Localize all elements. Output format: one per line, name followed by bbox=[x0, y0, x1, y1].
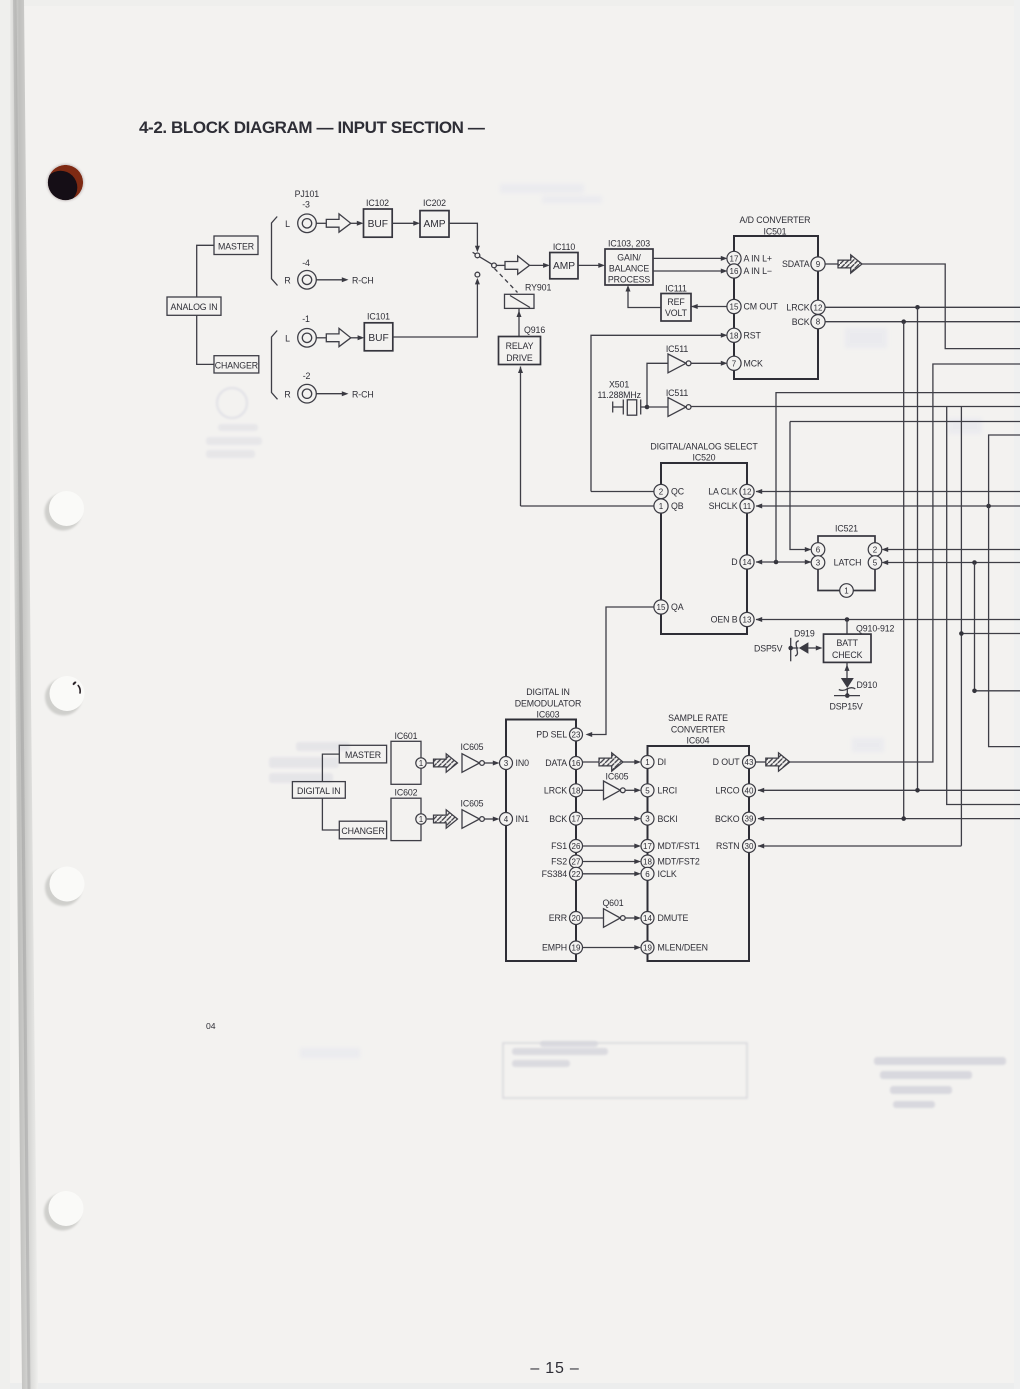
wire BCK to BCKI bbox=[583, 818, 639, 820]
node CHANGER (digital) bbox=[339, 821, 386, 839]
jack R master bbox=[284, 271, 316, 290]
svg-text:RELAY: RELAY bbox=[506, 341, 534, 351]
node MASTER (digital) bbox=[339, 745, 386, 763]
pin 1 IC602 bbox=[416, 814, 426, 824]
svg-text:19: 19 bbox=[643, 944, 652, 953]
wire EMPH to MLEN/DEEN bbox=[583, 947, 639, 949]
pin 27 FS2 bbox=[551, 855, 582, 868]
node BCK junction bbox=[901, 319, 906, 324]
svg-text:39: 39 bbox=[745, 815, 754, 824]
wire analog-in tree bbox=[197, 245, 214, 364]
svg-text:17: 17 bbox=[643, 842, 652, 851]
svg-text:LRCK: LRCK bbox=[786, 303, 809, 313]
node LRCO junction bbox=[915, 788, 920, 793]
hatched arrow IN0 bbox=[434, 754, 458, 772]
svg-text:26: 26 bbox=[572, 842, 581, 851]
svg-text:14: 14 bbox=[643, 914, 652, 923]
hollow arrow after switch bbox=[505, 256, 530, 274]
wire CM OUT to REF VOLT bbox=[691, 306, 728, 308]
wire pin5 branch down bbox=[975, 563, 1020, 691]
svg-text:R: R bbox=[284, 276, 290, 286]
pin 18 MDT/FST2 bbox=[641, 855, 700, 868]
svg-text:IC521: IC521 bbox=[835, 524, 858, 534]
wire arrow to BUF changer bbox=[351, 337, 362, 339]
jack L master bbox=[285, 214, 316, 233]
svg-text:MLEN/DEEN: MLEN/DEEN bbox=[658, 943, 708, 953]
punch hole shadow 2 bbox=[45, 679, 82, 716]
switch S relay contacts bbox=[473, 252, 497, 277]
svg-text:4-2. BLOCK DIAGRAM — INPUT SEC: 4-2. BLOCK DIAGRAM — INPUT SECTION — bbox=[139, 118, 485, 137]
wire digital-in tree bbox=[322, 754, 339, 830]
pin 4 IN1 bbox=[500, 813, 530, 826]
svg-text:-2: -2 bbox=[303, 371, 311, 381]
svg-text:RSTN: RSTN bbox=[716, 841, 740, 851]
svg-text:PJ101: PJ101 bbox=[295, 189, 320, 199]
svg-text:DIGITAL/ANALOG SELECT: DIGITAL/ANALOG SELECT bbox=[650, 441, 758, 451]
wire SHCLK from edge bbox=[756, 505, 1020, 507]
svg-text:EMPH: EMPH bbox=[542, 943, 567, 953]
pin 3 IC521 bbox=[811, 556, 825, 570]
bleedthrough ghost text bottom right bbox=[874, 1057, 1006, 1108]
wire R master to R-CH bbox=[316, 279, 342, 281]
wire Q601 to DMUTE bbox=[625, 917, 638, 919]
svg-text:AMP: AMP bbox=[423, 219, 445, 230]
svg-text:IN0: IN0 bbox=[516, 758, 530, 768]
inverter IC605 in0 bbox=[461, 742, 485, 772]
svg-text:IC605: IC605 bbox=[461, 799, 484, 809]
wire BCK to edge bbox=[825, 321, 1020, 323]
punch hole shadow 3 bbox=[45, 869, 82, 906]
pin 12 LA CLK bbox=[708, 484, 754, 498]
svg-text:IC605: IC605 bbox=[461, 742, 484, 752]
svg-text:FS384: FS384 bbox=[542, 869, 568, 879]
wire IC602 to arrow bbox=[427, 818, 434, 820]
pin 13 OEN B bbox=[711, 612, 754, 626]
wire arrow to DI bbox=[623, 761, 639, 763]
pin 18 RST bbox=[727, 328, 762, 342]
svg-text:LRCO: LRCO bbox=[715, 786, 739, 796]
svg-text:6: 6 bbox=[645, 870, 650, 879]
svg-text:DIGITAL IN: DIGITAL IN bbox=[526, 687, 569, 697]
wire BUF to AMP bbox=[392, 222, 418, 224]
pin 3 IN0 bbox=[500, 757, 530, 770]
wire branch y633 to edge bbox=[961, 633, 1020, 635]
wire branch x961 bbox=[960, 407, 962, 846]
bleedthrough ghost text mid-left bbox=[269, 742, 350, 783]
svg-text:04: 04 bbox=[206, 1021, 216, 1031]
svg-text:D910: D910 bbox=[857, 680, 878, 690]
pin 22 FS384 bbox=[542, 867, 583, 880]
svg-text:11: 11 bbox=[743, 502, 752, 511]
op-amp IC101 BUF bbox=[364, 312, 393, 351]
svg-text:17: 17 bbox=[572, 815, 581, 824]
wire inverter to IN1 bbox=[484, 818, 497, 820]
pin 19 EMPH bbox=[542, 941, 583, 954]
supply DSP15V bbox=[830, 688, 863, 712]
node SHCLK junction bbox=[986, 504, 991, 509]
hollow arrow L changer bbox=[326, 328, 351, 346]
svg-text:MASTER: MASTER bbox=[218, 242, 254, 252]
pin 17 BCK bbox=[549, 812, 582, 825]
wire D OUT route bbox=[756, 761, 766, 763]
svg-text:D OUT: D OUT bbox=[713, 757, 741, 767]
pin 39 BCKO bbox=[715, 812, 756, 825]
wire RST from QC bbox=[591, 335, 725, 491]
svg-text:– 15 –: – 15 – bbox=[530, 1360, 579, 1377]
wire R changer to R-CH bbox=[316, 393, 342, 395]
svg-text:12: 12 bbox=[814, 303, 823, 312]
svg-text:BALANCE: BALANCE bbox=[609, 264, 650, 274]
wire RSTN from bus bbox=[758, 845, 961, 847]
svg-text:IC511: IC511 bbox=[666, 388, 689, 398]
wire D OUT to bus bbox=[790, 364, 1020, 762]
svg-text:1: 1 bbox=[645, 758, 650, 767]
pin 23 PD SEL bbox=[536, 728, 582, 741]
wire y435 corner bbox=[989, 435, 1020, 747]
wire LRCO from edge bbox=[758, 789, 1020, 791]
node crystal junction bbox=[645, 405, 650, 410]
svg-text:1: 1 bbox=[844, 587, 849, 596]
svg-text:AMP: AMP bbox=[553, 261, 575, 272]
svg-text:BUF: BUF bbox=[368, 333, 388, 344]
hatched arrow IN1 bbox=[434, 810, 458, 828]
svg-text:D: D bbox=[731, 557, 737, 567]
pin 9 SDATA bbox=[782, 257, 825, 271]
svg-text:9: 9 bbox=[816, 260, 821, 269]
mech link dashed bbox=[495, 269, 518, 293]
svg-text:15: 15 bbox=[657, 603, 666, 612]
svg-text:BATT: BATT bbox=[836, 638, 858, 648]
wire OEN B to edge bbox=[756, 619, 1020, 621]
wire QA to PD SEL bbox=[589, 607, 655, 735]
pin 40 LRCO bbox=[715, 784, 755, 797]
pin 8 BCK bbox=[792, 315, 825, 329]
handwritten mark bbox=[73, 682, 77, 686]
svg-text:3: 3 bbox=[816, 559, 821, 568]
svg-text:R-CH: R-CH bbox=[352, 390, 374, 400]
svg-text:QB: QB bbox=[671, 501, 684, 511]
svg-text:BCKI: BCKI bbox=[658, 814, 678, 824]
svg-text:6: 6 bbox=[816, 546, 821, 555]
wire clock bus from IC511b bbox=[691, 406, 1020, 408]
svg-text:A/D CONVERTER: A/D CONVERTER bbox=[740, 215, 811, 225]
hatched arrow D OUT bbox=[766, 753, 790, 771]
pin 14 D bbox=[731, 555, 754, 569]
svg-text:SDATA: SDATA bbox=[782, 259, 810, 269]
wire gain to pin17 bbox=[653, 257, 725, 259]
wire batt check to D910 bbox=[846, 662, 848, 678]
diode D910 bbox=[839, 678, 878, 690]
node MASTER (analog) bbox=[214, 236, 258, 255]
block IC111 REF VOLT bbox=[661, 283, 691, 321]
svg-text:1: 1 bbox=[419, 815, 424, 824]
svg-text:11.288MHz: 11.288MHz bbox=[598, 390, 641, 400]
pin 20 ERR bbox=[549, 912, 583, 925]
faint scan blotches bbox=[300, 184, 982, 1058]
svg-text:CM OUT: CM OUT bbox=[744, 302, 779, 312]
svg-text:23: 23 bbox=[572, 731, 581, 740]
inverter IC511 b bbox=[666, 388, 691, 417]
wire gain to pin16 bbox=[653, 270, 725, 272]
crystal X501 bbox=[598, 380, 648, 416]
wire BCK down to BCKO bbox=[903, 322, 905, 819]
inverter IC605 lrck bbox=[604, 772, 629, 800]
svg-text:ERR: ERR bbox=[549, 913, 567, 923]
svg-text:X501: X501 bbox=[609, 380, 629, 390]
wire junction to batt check bbox=[846, 620, 848, 635]
svg-text:Q916: Q916 bbox=[524, 325, 545, 335]
pin 18 LRCK bbox=[544, 784, 583, 797]
svg-text:GAIN/: GAIN/ bbox=[617, 253, 641, 263]
svg-text:IC202: IC202 bbox=[423, 198, 446, 208]
svg-text:4: 4 bbox=[504, 815, 509, 824]
pin 30 RSTN bbox=[716, 840, 756, 853]
op-amp IC102 BUF bbox=[364, 198, 393, 237]
svg-text:CHECK: CHECK bbox=[832, 650, 863, 660]
pin 15 QA bbox=[654, 600, 684, 614]
hatched arrow DATA bbox=[599, 753, 623, 771]
svg-text:LA CLK: LA CLK bbox=[708, 487, 737, 497]
pin 19 MLEN/DEEN bbox=[641, 941, 708, 954]
svg-text:IC602: IC602 bbox=[395, 788, 418, 798]
svg-text:DIGITAL IN: DIGITAL IN bbox=[297, 786, 340, 796]
wire bus row y421 bbox=[790, 421, 1020, 423]
pin 1 IC601 bbox=[416, 758, 426, 768]
svg-text:PD SEL: PD SEL bbox=[536, 730, 567, 740]
wire BCKO from edge bbox=[758, 818, 1020, 820]
svg-text:REF: REF bbox=[667, 297, 685, 307]
svg-text:R-CH: R-CH bbox=[352, 276, 374, 286]
svg-text:16: 16 bbox=[572, 759, 581, 768]
svg-text:DSP5V: DSP5V bbox=[754, 644, 783, 654]
svg-text:MDT/FST2: MDT/FST2 bbox=[658, 857, 700, 867]
connector IC601 bbox=[391, 731, 421, 784]
svg-text:CHANGER: CHANGER bbox=[341, 826, 384, 836]
block RELAY DRIVE bbox=[499, 337, 541, 365]
svg-text:LATCH: LATCH bbox=[834, 558, 862, 568]
svg-text:2: 2 bbox=[873, 546, 878, 555]
wire relay to drive bbox=[518, 308, 520, 336]
jack L changer bbox=[285, 329, 316, 348]
bracket changer pair bbox=[272, 331, 278, 400]
svg-text:FS2: FS2 bbox=[551, 857, 567, 867]
svg-text:IC603: IC603 bbox=[537, 710, 560, 720]
svg-text:IC101: IC101 bbox=[367, 312, 390, 322]
svg-text:R: R bbox=[284, 389, 290, 399]
punch hole shadow 4 bbox=[44, 1194, 81, 1231]
pin 11 SHCLK bbox=[709, 499, 754, 513]
pin 1 DI bbox=[641, 756, 666, 769]
pin 17 A IN L+ bbox=[727, 251, 772, 265]
wire clock branch down bbox=[947, 407, 1020, 805]
chip IC520 DIGITAL/ANALOG SELECT bbox=[650, 441, 758, 634]
svg-text:IC110: IC110 bbox=[553, 242, 576, 252]
svg-text:18: 18 bbox=[572, 786, 581, 795]
diode D919 bbox=[791, 629, 823, 657]
svg-text:DI: DI bbox=[658, 757, 667, 767]
wire pin5 from edge bbox=[884, 562, 1020, 564]
svg-text:-3: -3 bbox=[302, 200, 310, 210]
svg-text:-1: -1 bbox=[302, 314, 310, 324]
pin 6 IC521 bbox=[811, 543, 825, 557]
svg-text:DMUTE: DMUTE bbox=[658, 913, 689, 923]
svg-text:8: 8 bbox=[816, 318, 821, 327]
wire D vertical to bus bbox=[776, 393, 1020, 562]
svg-text:Q601: Q601 bbox=[602, 898, 623, 908]
block IC103,203 GAIN/BALANCE PROCESS bbox=[605, 238, 653, 285]
svg-text:FS1: FS1 bbox=[551, 841, 567, 851]
pin 6 ICLK bbox=[641, 867, 677, 880]
wire ERR to Q601 bbox=[583, 917, 604, 919]
wire AMP to switch bbox=[449, 223, 477, 248]
wire arrow to IC110 bbox=[530, 264, 549, 266]
pin 2 QC bbox=[654, 484, 685, 498]
wire REF VOLT to gain box bbox=[628, 288, 661, 308]
svg-text:DRIVE: DRIVE bbox=[506, 353, 533, 363]
svg-text:43: 43 bbox=[745, 758, 754, 767]
node ANALOG IN bbox=[167, 297, 221, 315]
pin 1 QB bbox=[654, 499, 684, 513]
wire LA CLK from edge bbox=[756, 491, 1020, 493]
pin 14 DMUTE bbox=[641, 912, 689, 925]
svg-text:2: 2 bbox=[659, 488, 664, 497]
svg-text:IC605: IC605 bbox=[606, 772, 629, 782]
scanned page left edge band bbox=[9, 0, 38, 1389]
svg-text:IC604: IC604 bbox=[687, 736, 710, 746]
node branch junction y690 bbox=[972, 689, 977, 694]
svg-text:IN1: IN1 bbox=[516, 814, 530, 824]
chip IC603 DIGITAL IN DEMODULATOR bbox=[506, 687, 581, 961]
chip IC604 SAMPLE RATE CONVERTER bbox=[648, 713, 750, 961]
svg-text:17: 17 bbox=[730, 254, 739, 263]
svg-text:18: 18 bbox=[730, 331, 739, 340]
svg-text:MASTER: MASTER bbox=[345, 750, 381, 760]
bracket master pair bbox=[272, 217, 278, 286]
svg-text:18: 18 bbox=[643, 858, 652, 867]
node D junction bbox=[774, 560, 779, 565]
svg-text:CONVERTER: CONVERTER bbox=[671, 724, 725, 734]
wire inverter to LRCI bbox=[625, 789, 638, 791]
svg-text:16: 16 bbox=[730, 267, 739, 276]
node DIGITAL IN bbox=[292, 782, 345, 799]
svg-text:3: 3 bbox=[645, 815, 650, 824]
svg-text:LRCK: LRCK bbox=[544, 786, 567, 796]
wire FS384 to ICLK bbox=[583, 873, 639, 875]
svg-text:CHANGER: CHANGER bbox=[215, 360, 258, 370]
pin 26 FS1 bbox=[551, 840, 582, 853]
pin 16 A IN L- bbox=[727, 264, 772, 278]
wire IC110 to gain bbox=[578, 264, 603, 266]
svg-text:19: 19 bbox=[572, 944, 581, 953]
svg-text:MDT/FST1: MDT/FST1 bbox=[658, 841, 700, 851]
wire switch common to arrow bbox=[496, 264, 505, 266]
svg-text:IC111: IC111 bbox=[665, 283, 687, 293]
wire DATA to arrow bbox=[583, 761, 599, 763]
punch hole shadow 1 bbox=[45, 494, 82, 531]
svg-text:30: 30 bbox=[745, 842, 754, 851]
inverter IC605 in1 bbox=[461, 799, 485, 829]
wire arrow to BUF bbox=[351, 222, 362, 224]
block BATT CHECK bbox=[824, 634, 872, 662]
wire D from junction bbox=[756, 561, 812, 563]
hatched arrow SDATA bbox=[838, 255, 862, 273]
pin 2 IC521 bbox=[868, 543, 882, 557]
wire inverter to IN0 bbox=[484, 762, 497, 764]
jack R changer bbox=[284, 384, 316, 403]
node DSP5V junction bbox=[788, 646, 793, 651]
svg-text:DEMODULATOR: DEMODULATOR bbox=[515, 698, 582, 708]
wire QB to relay drive bbox=[521, 367, 655, 507]
connector IC602 bbox=[391, 788, 421, 841]
svg-text:IC103, 203: IC103, 203 bbox=[608, 238, 650, 248]
inverter IC511 a bbox=[666, 344, 691, 373]
pin 7 MCK bbox=[727, 356, 763, 370]
svg-text:15: 15 bbox=[730, 303, 739, 312]
pin 43 D OUT bbox=[713, 756, 756, 769]
svg-text:IC520: IC520 bbox=[693, 453, 716, 463]
pin 16 DATA bbox=[545, 757, 582, 770]
wire IC601 to arrow bbox=[427, 762, 434, 764]
svg-text:L: L bbox=[285, 219, 290, 229]
svg-text:L: L bbox=[285, 334, 290, 344]
svg-text:IC501: IC501 bbox=[764, 226, 787, 236]
pin 17 MDT/FST1 bbox=[641, 840, 700, 853]
svg-text:LRCI: LRCI bbox=[658, 786, 678, 796]
wire QC up to RST (vertical) bbox=[591, 491, 655, 493]
svg-text:DATA: DATA bbox=[545, 758, 567, 768]
wire SDATA out bbox=[825, 263, 838, 265]
wire jack to arrow changer bbox=[316, 337, 326, 339]
wire FS1 to MDT/FST1 bbox=[583, 845, 639, 847]
svg-text:SAMPLE RATE: SAMPLE RATE bbox=[668, 713, 728, 723]
wire inverter a to MCK bbox=[691, 362, 725, 364]
wire LRCK down to LRCO bbox=[917, 307, 919, 790]
svg-text:5: 5 bbox=[873, 559, 878, 568]
pin 1 IC521 bbox=[840, 584, 854, 598]
wire IC101 out to switch lower contact bbox=[393, 282, 478, 337]
svg-text:RST: RST bbox=[744, 331, 762, 341]
svg-text:-4: -4 bbox=[302, 258, 310, 268]
wire crystal to inverter b bbox=[647, 406, 668, 408]
svg-text:12: 12 bbox=[743, 488, 752, 497]
svg-text:5: 5 bbox=[645, 786, 650, 795]
svg-text:27: 27 bbox=[572, 858, 581, 867]
svg-text:14: 14 bbox=[743, 558, 752, 567]
svg-text:7: 7 bbox=[732, 359, 737, 368]
svg-text:QA: QA bbox=[671, 602, 684, 612]
node BCKO junction bbox=[901, 816, 906, 821]
chip IC521 LATCH bbox=[818, 524, 875, 591]
svg-text:ICLK: ICLK bbox=[658, 869, 677, 879]
node CHANGER (analog) bbox=[214, 356, 259, 373]
svg-text:OEN B: OEN B bbox=[711, 615, 738, 625]
wire FS2 to MDT/FST2 bbox=[583, 861, 639, 863]
wire inverter a input bbox=[647, 363, 668, 407]
svg-text:A IN L−: A IN L− bbox=[744, 266, 772, 276]
svg-text:A IN L+: A IN L+ bbox=[744, 254, 772, 264]
svg-text:BCKO: BCKO bbox=[715, 814, 740, 824]
svg-text:22: 22 bbox=[572, 870, 581, 879]
supply DSP5V bbox=[754, 638, 791, 662]
chip IC501 A/D CONVERTER bbox=[734, 215, 818, 379]
pin 15 CM OUT bbox=[727, 299, 778, 313]
op-amp IC202 AMP bbox=[420, 198, 449, 237]
svg-text:1: 1 bbox=[659, 502, 664, 511]
bleedthrough ghost text left bbox=[206, 424, 262, 458]
wire pin2 from edge bbox=[884, 549, 1020, 551]
hollow arrow L master bbox=[326, 214, 351, 232]
svg-text:MCK: MCK bbox=[744, 359, 763, 369]
